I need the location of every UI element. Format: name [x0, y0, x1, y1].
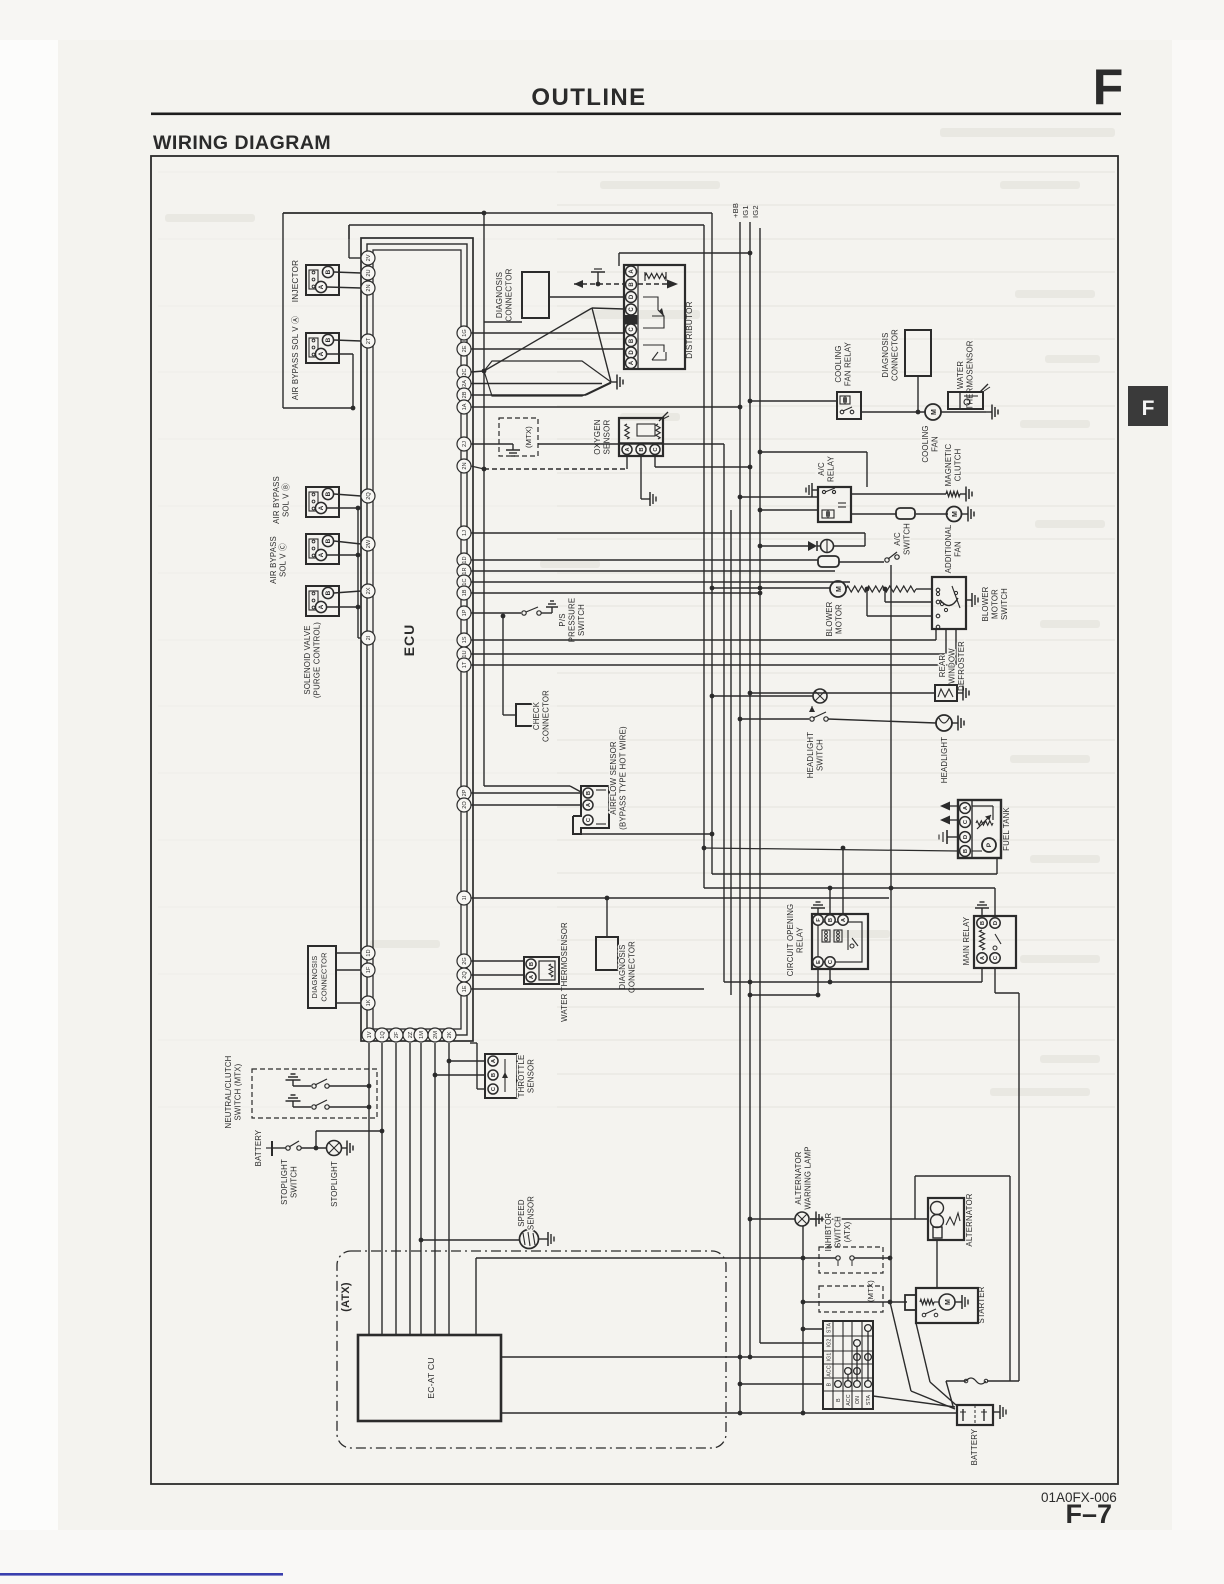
svg-text:B: B — [629, 338, 635, 343]
svg-text:1I: 1I — [462, 895, 468, 900]
page background ghost bleed-through rows — [158, 128, 1115, 1107]
injector J1 — [306, 265, 339, 295]
svg-text:2O: 2O — [462, 801, 468, 809]
svg-text:(ATX): (ATX) — [843, 1221, 852, 1242]
svg-text:M: M — [945, 1299, 952, 1305]
neutral/clutch switch dashed box — [252, 1069, 377, 1118]
ignition switch contacts — [865, 1325, 872, 1332]
speed sensor tap — [419, 1238, 424, 1243]
wire A/C relay to add fan — [758, 508, 763, 513]
wire injector to ECU 2U — [334, 272, 361, 273]
svg-text:NEUTRAL/CLUTCH: NEUTRAL/CLUTCH — [224, 1056, 233, 1129]
svg-text:B: B — [325, 269, 332, 274]
fuel tank FT1 — [958, 800, 1001, 858]
svg-text:2M: 2M — [433, 1031, 439, 1039]
inhibitor switch dashed box — [819, 1247, 883, 1273]
svg-text:B: B — [491, 1073, 497, 1077]
svg-text:B: B — [325, 590, 332, 595]
ground defroster — [957, 692, 963, 694]
cooling fan motor M1 — [925, 404, 941, 420]
svg-text:F: F — [1093, 59, 1124, 115]
wire alternator loop — [915, 1175, 1010, 1177]
wire EC-AT out 1 to ignition table IG1 row — [501, 1356, 823, 1358]
svg-text:MOTOR: MOTOR — [991, 589, 1000, 619]
MTX dashed box (oxygen) — [499, 418, 538, 456]
ground neutral switch — [292, 1080, 294, 1086]
svg-text:WATER THERMOSENSOR: WATER THERMOSENSOR — [560, 922, 569, 1022]
defroster indicator lamp — [710, 694, 715, 699]
diode D1 — [758, 544, 763, 549]
svg-text:A: A — [318, 284, 325, 289]
svg-text:WIRING DIAGRAM: WIRING DIAGRAM — [153, 132, 331, 154]
svg-text:1D: 1D — [366, 949, 372, 956]
wire ECU 1A to cooling relay — [471, 406, 740, 408]
main relay K4 — [974, 916, 1016, 968]
svg-text:1Q: 1Q — [380, 1031, 386, 1039]
svg-text:WATER: WATER — [956, 361, 965, 389]
air bypass solenoid valve A — [306, 333, 339, 363]
water thermosensor W1 — [524, 957, 559, 984]
diagnosis connector (cabin) drop — [605, 896, 610, 901]
wire lamp to alternator — [810, 1218, 928, 1220]
distributor U2 — [624, 265, 685, 369]
blower switch pins — [936, 588, 940, 592]
svg-text:WINDOW: WINDOW — [948, 648, 957, 684]
airflow sensor FM1 — [573, 786, 609, 834]
ground headlight — [952, 722, 958, 724]
wire left diag 1K — [336, 1002, 361, 1004]
distributor igniter transistor Q2 — [643, 345, 664, 352]
ground speed sensor — [538, 1238, 548, 1240]
check connector — [516, 704, 534, 726]
wire sol C drain — [327, 554, 358, 556]
wire fan to battery 2 — [890, 1302, 911, 1391]
wire IG1 to table — [748, 1355, 753, 1360]
svg-text:(PURGE CONTROL): (PURGE CONTROL) — [313, 622, 322, 698]
svg-text:RELAY: RELAY — [796, 926, 805, 953]
ground fuel tank D — [947, 836, 958, 838]
wire to A/C relay feed2 — [760, 451, 867, 453]
svg-text:A: A — [318, 552, 325, 557]
svg-text:SWITCH: SWITCH — [834, 1216, 843, 1248]
wire 1R line — [471, 570, 835, 572]
svg-text:AIRFLOW SENSOR: AIRFLOW SENSOR — [609, 741, 618, 815]
ground P/S switch — [551, 607, 553, 613]
svg-text:IG2: IG2 — [827, 1339, 833, 1348]
ground oxygen B — [640, 456, 642, 499]
wire diag drop — [917, 376, 919, 412]
ground A/C relay — [812, 489, 818, 491]
wire to A/C relay feed1 — [738, 495, 743, 500]
svg-text:HEADLIGHT: HEADLIGHT — [940, 737, 949, 783]
wire throttle B — [435, 1074, 485, 1076]
wire fan to battery 3 — [916, 1323, 930, 1382]
svg-text:IG1: IG1 — [827, 1353, 833, 1362]
svg-text:D: D — [963, 835, 969, 839]
svg-text:E: E — [816, 960, 822, 964]
diagnosis connector (cabin) — [596, 937, 618, 970]
wire ECU 1T to blower switch — [471, 664, 956, 666]
left return wire — [282, 213, 284, 408]
wire fan to battery 1 — [873, 1396, 955, 1407]
svg-text:F: F — [816, 918, 822, 922]
ground near distributor top — [597, 272, 599, 284]
svg-text:2E: 2E — [462, 345, 468, 352]
svg-text:B: B — [325, 538, 332, 543]
svg-text:B: B — [586, 791, 592, 795]
svg-text:2C: 2C — [462, 368, 468, 375]
wire lamp drop — [802, 1226, 804, 1413]
wire oxygen C to IG1 — [654, 456, 656, 467]
wire 1J line — [471, 532, 865, 534]
solenoid valve purge control — [306, 586, 339, 616]
svg-text:1S: 1S — [462, 636, 468, 643]
wire left diag 1F — [336, 969, 361, 971]
ground battery — [993, 1411, 1000, 1413]
EC-AT CU controller — [358, 1335, 501, 1421]
svg-text:ALTERNATOR: ALTERNATOR — [794, 1151, 803, 1204]
wire ECU 2E to distributor — [471, 348, 624, 350]
blower resistor R1 — [846, 586, 916, 592]
svg-text:1D: 1D — [462, 556, 468, 563]
svg-text:B: B — [963, 849, 969, 853]
ATX dash-dot box — [337, 1251, 726, 1448]
svg-text:IG2: IG2 — [751, 205, 760, 218]
inhibitor contacts — [836, 1256, 840, 1260]
svg-text:2K: 2K — [447, 1031, 453, 1038]
wire IG1 vertical bus — [749, 222, 751, 1357]
wire purge drain — [327, 606, 358, 608]
wire 1C line — [471, 581, 850, 583]
wire shield drain lambda — [484, 308, 592, 371]
svg-text:BATTERY: BATTERY — [254, 1129, 263, 1166]
blower resistor tap L — [883, 587, 888, 592]
svg-text:B: B — [325, 337, 332, 342]
A/C switch S2 — [839, 561, 884, 563]
thermal fuse T1 — [817, 545, 820, 547]
wire main relay A — [981, 968, 983, 982]
svg-text:HEADLIGHT: HEADLIGHT — [806, 732, 815, 778]
fuse main — [946, 1380, 966, 1382]
svg-text:DIAGNOSIS: DIAGNOSIS — [310, 956, 319, 999]
svg-text:WARNING LAMP: WARNING LAMP — [804, 1146, 813, 1209]
ground warning lamp — [810, 1218, 816, 1220]
svg-text:PRESSURE: PRESSURE — [568, 598, 577, 643]
wire stoplight branch — [315, 1131, 317, 1148]
svg-text:M: M — [931, 409, 938, 415]
diagnosis connector (engine bay) — [522, 272, 549, 318]
wire fuse to battery — [946, 1381, 953, 1406]
wire main relay C drop — [994, 968, 996, 993]
ground in MTX box — [512, 444, 514, 450]
headlight switch S4 — [738, 717, 743, 722]
svg-text:THROTTLE: THROTTLE — [517, 1055, 526, 1098]
wire throttle A — [449, 1060, 485, 1062]
svg-text:EC-AT CU: EC-AT CU — [426, 1357, 436, 1398]
svg-text:MAIN RELAY: MAIN RELAY — [962, 916, 971, 965]
wire ECU 2P to airflow — [471, 792, 582, 794]
wire clutch switch out — [329, 1106, 369, 1108]
neutral switch contact — [312, 1084, 316, 1088]
ECU bottom pins — [362, 1028, 376, 1042]
svg-text:1F: 1F — [366, 966, 372, 973]
wire inhibitor line from EC-AT — [476, 1257, 836, 1259]
section tab F — [1128, 386, 1168, 426]
svg-text:AIR BYPASS SOL V Ⓐ: AIR BYPASS SOL V Ⓐ — [291, 316, 300, 400]
svg-text:(MTX): (MTX) — [524, 426, 533, 448]
svg-text:2T: 2T — [366, 337, 372, 344]
svg-text:2U: 2U — [366, 269, 372, 276]
svg-text:CLUTCH: CLUTCH — [954, 449, 963, 482]
wire sol B to ECU 2Q — [334, 494, 361, 496]
wire STA to table — [801, 1327, 806, 1332]
ground additional fan — [962, 513, 968, 515]
svg-text:1U: 1U — [462, 650, 468, 657]
wire left diag 1D — [336, 952, 361, 954]
svg-text:1K: 1K — [366, 999, 372, 1006]
svg-text:FAN: FAN — [954, 541, 963, 557]
diagnosis connector (left) — [308, 946, 336, 1008]
wire ECU 2G to thermo — [471, 960, 524, 962]
svg-text:SWITCH: SWITCH — [577, 604, 586, 636]
throttle sensor TS1 — [485, 1054, 517, 1098]
wire ECU 1U to blower switch — [471, 653, 946, 655]
wire ECU 2Q to thermo — [471, 974, 524, 976]
svg-text:2P: 2P — [462, 789, 468, 796]
wire top-left riser — [283, 212, 484, 214]
wire relay B riser — [829, 888, 831, 914]
svg-text:FAN: FAN — [931, 436, 940, 452]
wire relay E drop — [817, 969, 819, 995]
svg-text:CONNECTOR: CONNECTOR — [542, 690, 551, 742]
svg-text:REAR: REAR — [938, 655, 947, 678]
wire fuel pump feed — [712, 873, 997, 875]
ECU lower-left pins — [361, 946, 375, 960]
svg-text:B: B — [325, 491, 332, 496]
svg-text:D: D — [993, 921, 999, 925]
alternator warning lamp E3 — [748, 1217, 753, 1222]
wire relay C drop — [829, 969, 831, 982]
svg-text:ECU: ECU — [401, 624, 417, 657]
svg-text:STOPLIGHT: STOPLIGHT — [280, 1159, 289, 1205]
svg-text:SOL V Ⓒ: SOL V Ⓒ — [279, 543, 288, 577]
wire aux vertical x731 — [730, 510, 732, 995]
svg-text:D: D — [629, 350, 635, 355]
svg-text:1J: 1J — [462, 530, 468, 536]
magnetic clutch L1 — [946, 491, 960, 496]
bottom blue rule — [0, 1573, 283, 1576]
distributor pickup coil — [645, 273, 666, 278]
wire ECU 1I bus — [471, 897, 889, 899]
wire relay A riser and fuel tank B feed — [842, 848, 844, 914]
wire fan to ground — [941, 411, 986, 413]
svg-text:SOLENOID VALVE: SOLENOID VALVE — [303, 625, 312, 694]
wire A/C relay to clutch — [851, 493, 946, 495]
ground signal shield — [611, 381, 617, 383]
svg-text:2N: 2N — [462, 462, 468, 469]
svg-text:B: B — [827, 1382, 833, 1386]
stoplight E2 — [327, 1141, 342, 1156]
hatch mark thermo — [980, 384, 988, 392]
wire riser to diag connector and airflow — [483, 213, 485, 786]
svg-text:CONNECTOR: CONNECTOR — [628, 941, 637, 993]
wire top bus +B — [283, 212, 712, 214]
svg-text:CONNECTOR: CONNECTOR — [891, 329, 900, 381]
diagnosis connector (cooling) — [905, 330, 931, 376]
svg-text:2Q: 2Q — [366, 492, 372, 500]
op-amp ECU main box — [361, 238, 473, 1041]
svg-text:DIAGNOSIS: DIAGNOSIS — [881, 332, 890, 377]
svg-text:STA: STA — [827, 1323, 833, 1334]
svg-text:OUTLINE: OUTLINE — [531, 84, 646, 111]
ECU left pins — [361, 251, 375, 265]
wire injector to ECU 2V — [327, 287, 361, 288]
shield hexagon outline — [484, 361, 611, 396]
blower resistor tap M — [865, 587, 870, 592]
svg-text:2A: 2A — [462, 380, 468, 387]
wire ECU 1G to distributor — [471, 332, 624, 334]
svg-text:A: A — [629, 360, 635, 365]
A/C relay K2 — [818, 487, 851, 522]
wire sol A drain — [327, 353, 353, 355]
svg-text:1B: 1B — [462, 589, 468, 596]
cooling fan relay K1 — [837, 392, 861, 419]
wire distributor feed — [619, 252, 750, 254]
svg-text:SWITCH (MTX): SWITCH (MTX) — [234, 1063, 243, 1120]
svg-text:2J: 2J — [462, 441, 468, 447]
svg-text:SENSOR: SENSOR — [527, 1196, 536, 1230]
ignition switch table — [823, 1321, 873, 1409]
svg-text:B: B — [529, 962, 535, 966]
svg-text:SPEED: SPEED — [517, 1199, 526, 1227]
wire EC-AT battery line — [501, 1412, 958, 1414]
svg-text:RELAY: RELAY — [827, 455, 836, 482]
wire blower feed — [710, 586, 715, 591]
svg-text:SWITCH: SWITCH — [903, 523, 912, 555]
wire sol B drain — [327, 507, 358, 509]
svg-text:A: A — [318, 604, 325, 609]
svg-text:STOPLIGHT: STOPLIGHT — [330, 1161, 339, 1207]
wire IG2 vertical bus — [759, 228, 761, 1343]
wire 1J corner — [864, 533, 866, 546]
svg-text:FAN RELAY: FAN RELAY — [844, 341, 853, 386]
svg-text:SWITCH: SWITCH — [816, 739, 825, 771]
ground starter — [955, 1301, 962, 1303]
svg-text:1C: 1C — [462, 578, 468, 585]
wire lambda to distributor C pin — [592, 308, 624, 309]
svg-text:ACC: ACC — [827, 1365, 833, 1377]
starter M4 — [916, 1288, 978, 1323]
svg-text:FUEL TANK: FUEL TANK — [1002, 807, 1011, 851]
svg-text:MAGNETIC: MAGNETIC — [944, 443, 953, 486]
svg-text:ADDITIONAL: ADDITIONAL — [944, 524, 953, 573]
svg-text:1M: 1M — [419, 1031, 425, 1039]
svg-text:SWITCH: SWITCH — [1000, 588, 1009, 620]
wire 1D line — [471, 559, 818, 561]
hatch mark oxygen — [659, 412, 668, 421]
svg-text:SWITCH: SWITCH — [290, 1166, 299, 1198]
wire box-702 to main relay branch — [704, 887, 995, 889]
svg-text:2X: 2X — [366, 587, 372, 594]
svg-text:P: P — [986, 842, 993, 847]
svg-text:STA: STA — [866, 1395, 872, 1406]
svg-text:B: B — [828, 918, 834, 922]
svg-text:OXYGEN: OXYGEN — [593, 419, 602, 454]
svg-text:A: A — [318, 351, 325, 356]
circuit opening relay K3 — [812, 914, 868, 969]
svg-text:2W: 2W — [366, 539, 372, 548]
wire relay to cooling fan — [861, 411, 925, 413]
air bypass solenoid valve C — [306, 534, 339, 564]
wire ECU 1S to blower switch — [471, 639, 936, 641]
wire ECU 2O to airflow — [471, 804, 582, 806]
speed sensor SS1 — [520, 1230, 539, 1249]
svg-text:B: B — [639, 447, 645, 451]
wire purge to ECU 2X — [334, 591, 361, 593]
svg-text:AIR BYPASS: AIR BYPASS — [269, 536, 278, 584]
distributor pin strip — [637, 265, 639, 369]
clutch switch contact — [312, 1105, 316, 1109]
wire airflow feed — [484, 785, 570, 787]
wire 1B line — [471, 592, 760, 594]
svg-text:A/C: A/C — [893, 532, 902, 546]
svg-text:COOLING: COOLING — [921, 425, 930, 462]
svg-text:2I: 2I — [366, 635, 372, 640]
ground clutch switch — [292, 1101, 294, 1107]
wire 2V feed — [349, 257, 361, 259]
condenser fan fuse — [896, 508, 915, 519]
P/S pressure switch S1 — [501, 614, 506, 619]
resistor pack — [818, 556, 839, 567]
diagram outer border — [151, 156, 1118, 1484]
ECU right pins — [457, 326, 471, 340]
wire +B vertical bus — [739, 222, 741, 1413]
svg-text:C: C — [629, 307, 635, 312]
wire 2J through MTX to x724 — [538, 443, 724, 445]
svg-text:D: D — [629, 294, 635, 299]
wire throttle C hook — [477, 1088, 485, 1090]
svg-text:A: A — [629, 269, 635, 274]
svg-text:DISTRIBUTOR: DISTRIBUTOR — [685, 301, 694, 359]
svg-text:M: M — [836, 586, 843, 592]
battery B1 — [957, 1405, 993, 1425]
ground blower switch — [966, 599, 972, 601]
ignition switch contact bars — [856, 1346, 858, 1381]
svg-text:2N: 2N — [366, 284, 372, 291]
svg-text:B: B — [836, 1398, 842, 1402]
wire signal chevron 2C — [471, 371, 484, 372]
ground main relay — [981, 908, 983, 916]
svg-text:B: B — [629, 282, 635, 287]
wire sol C to ECU 2W — [334, 541, 361, 544]
svg-text:1T: 1T — [462, 661, 468, 668]
svg-text:+BB: +BB — [731, 203, 740, 218]
svg-text:2B: 2B — [462, 391, 468, 398]
wire IG1 to cooling relay — [748, 399, 753, 404]
wire starter feed — [890, 1301, 907, 1303]
svg-text:2G: 2G — [462, 957, 468, 964]
ground cooling circuit — [986, 411, 992, 413]
blower motor switch S3 — [932, 577, 966, 629]
distributor igniter transistor Q1 — [643, 297, 658, 310]
svg-text:ON: ON — [855, 1396, 861, 1404]
svg-text:1G: 1G — [462, 329, 468, 336]
svg-text:CONNECTOR: CONNECTOR — [505, 268, 514, 321]
svg-text:CONNECTOR: CONNECTOR — [320, 952, 329, 1001]
svg-text:IG1: IG1 — [741, 205, 750, 218]
svg-text:DIAGNOSIS: DIAGNOSIS — [495, 272, 504, 318]
svg-text:INHIBTOR: INHIBTOR — [824, 1212, 833, 1251]
